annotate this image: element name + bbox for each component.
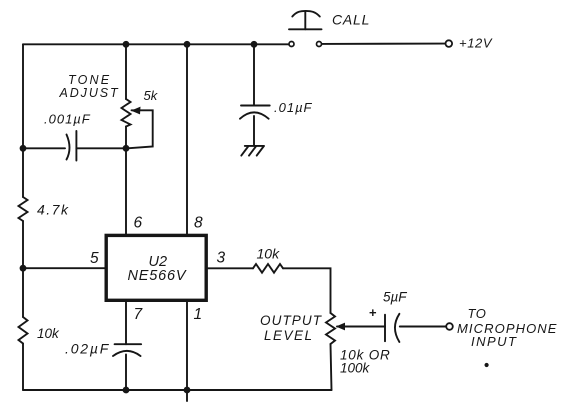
wire left bus lower [22,344,24,391]
svg-text:10k: 10k [257,246,281,262]
node junction pin5 [20,265,27,272]
wire bottom bus [23,389,332,391]
wire pin8 lead [186,44,188,234]
svg-text:LEVEL: LEVEL [264,328,314,343]
ground [241,146,264,156]
resistor 4.7k [19,197,28,221]
svg-text:7: 7 [134,306,144,323]
wire pin1 [186,300,188,390]
terminal +12V [446,40,453,47]
svg-text:TONE: TONE [68,73,111,87]
svg-text:.02µF: .02µF [65,341,110,357]
wire top bus [23,43,289,45]
wire pin5 [23,267,105,269]
svg-text:NE566V: NE566V [128,268,187,284]
potentiometer R3 output level [326,313,385,390]
dot mark [485,363,489,367]
node junction pot-bottom [123,145,130,152]
wire pin6 lead [125,148,127,234]
svg-text:100k: 100k [340,361,371,376]
svg-text:5: 5 [90,250,99,267]
capacitor C3 5uF [385,314,446,342]
node junction left-cap [20,145,27,152]
wire to +12V [322,43,445,45]
terminal microphone input [446,323,453,330]
svg-text:.01µF: .01µF [274,100,313,115]
IC U2 NE566V [106,235,206,300]
resistor 10k left [19,317,28,344]
node junction bottom-pin1 [184,387,191,394]
resistor R2 10k [253,264,283,273]
pushbutton S1 CALL [289,11,322,47]
svg-text:OUTPUT: OUTPUT [260,313,323,328]
wire pin3 to pot [283,268,331,313]
svg-text:5µF: 5µF [383,290,407,305]
svg-text:.001µF: .001µF [44,112,91,127]
wire left bus upper [22,44,24,197]
svg-text:8: 8 [194,215,203,232]
svg-text:ADJUST: ADJUST [59,86,120,100]
svg-text:6: 6 [134,215,143,232]
svg-text:5k: 5k [144,88,159,103]
capacitor C4 .02uF [113,300,141,390]
svg-text:+: + [369,305,377,320]
capacitor C2 .01uF [240,44,270,145]
wire pin3 [208,267,253,269]
node junction top-pin8 [184,41,191,48]
svg-text:4.7k: 4.7k [37,202,69,218]
svg-text:CALL: CALL [332,12,370,28]
wire left bus mid [22,221,24,317]
capacitor C1 .001uF [23,131,126,161]
potentiometer R1 5k TONE ADJUST [122,44,153,148]
svg-text:INPUT: INPUT [471,334,518,349]
svg-text:1: 1 [194,306,203,323]
wire bottom stub [186,390,188,401]
node junction bottom-pin7 [123,387,130,394]
svg-text:TO: TO [468,306,487,321]
node junction top-cap [251,41,258,48]
svg-text:3: 3 [217,250,226,267]
svg-text:10k: 10k [37,326,60,341]
svg-text:+12V: +12V [459,36,493,51]
node junction top-pot [123,41,130,48]
